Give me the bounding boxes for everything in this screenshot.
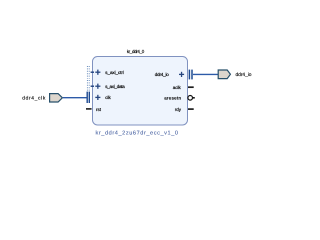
svg-text:ddr4_io: ddr4_io [155, 72, 169, 77]
pin ddr4_io connected interface bars [189, 70, 192, 80]
pin s_axi_data unconnected interface dashes [87, 80, 89, 93]
pin clk plus icon [95, 95, 100, 100]
pin rdy stub [188, 108, 194, 110]
svg-text:s_axi_data: s_axi_data [105, 84, 125, 89]
IP block U1 kr_ddr4_0 body [93, 57, 188, 126]
svg-text:aresetn: aresetn [164, 96, 181, 101]
svg-text:clk: clk [105, 95, 111, 100]
pin rst stub [86, 108, 92, 110]
pin clk connected interface bars [87, 92, 89, 103]
svg-text:ddr4_clk: ddr4_clk [22, 95, 46, 101]
external port ddr4_io pentagon [218, 70, 230, 79]
svg-text:kr_ddr4_0: kr_ddr4_0 [127, 49, 145, 54]
svg-text:kr_ddr4_2zu67dr_ecc_v1_0: kr_ddr4_2zu67dr_ecc_v1_0 [96, 129, 179, 136]
svg-text:aclk: aclk [173, 85, 182, 90]
pin aclk stub [188, 86, 194, 88]
external port ddr4_clk pentagon [50, 94, 63, 102]
svg-text:rdy: rdy [175, 107, 182, 112]
svg-text:rst: rst [96, 107, 102, 112]
pin s_axi_ctrl stub [91, 71, 94, 73]
pin s_axi_data plus icon [95, 84, 100, 89]
pin s_axi_ctrl unconnected interface dashes [87, 66, 89, 79]
wire ddr4_clk to clk pin [63, 97, 87, 99]
pin aresetn stub [192, 97, 195, 99]
pin aresetn inverter bubble [188, 96, 193, 101]
wire ddr4_io to external port [193, 73, 219, 75]
svg-text:ddr4_io: ddr4_io [236, 72, 252, 78]
pin s_axi_data stub [91, 85, 94, 87]
pin s_axi_ctrl plus icon [95, 70, 100, 75]
pin ddr4_io plus icon [179, 72, 184, 77]
svg-text:s_axi_ctrl: s_axi_ctrl [105, 70, 124, 75]
